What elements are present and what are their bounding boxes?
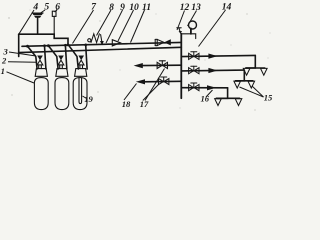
wire right stub cyl1	[45, 46, 46, 69]
valve R3	[189, 83, 199, 91]
wire stub V2 to collector	[48, 46, 58, 69]
wire R1 drop	[246, 55, 256, 68]
branch R2	[181, 66, 254, 88]
nozzle	[243, 68, 250, 75]
wire stem of 6	[53, 16, 55, 34]
leader 18	[124, 84, 137, 101]
wire left box vertical	[18, 34, 20, 56]
svg-text:6: 6	[55, 2, 60, 13]
leader 6	[55, 10, 58, 12]
leader 2	[8, 61, 37, 64]
arrow L1	[134, 63, 143, 68]
valve L2	[159, 77, 169, 85]
leader 13	[188, 11, 197, 27]
leader 7	[73, 10, 94, 44]
leader 8	[97, 10, 112, 36]
branch L2	[136, 77, 182, 85]
leader 14	[199, 10, 226, 47]
svg-text:18: 18	[122, 99, 131, 109]
leader 11	[131, 10, 145, 43]
wire R3 drop	[216, 88, 227, 99]
arrow L2	[136, 79, 145, 84]
svg-text:13: 13	[191, 2, 201, 13]
wire gauge line	[181, 34, 195, 39]
nozzle	[248, 81, 255, 88]
svg-text:10: 10	[129, 2, 139, 13]
wire stub V1 to collector	[28, 46, 38, 69]
nozzle	[261, 68, 268, 75]
leader 4	[19, 10, 34, 34]
svg-text:12: 12	[180, 2, 190, 13]
cylinder valve V2	[47, 44, 67, 69]
svg-text:2: 2	[1, 56, 7, 66]
wire R2 drop	[236, 70, 245, 81]
valve R1	[189, 52, 199, 60]
leader 1	[7, 72, 35, 83]
leader 9	[106, 10, 123, 43]
siphon tube 19	[79, 78, 82, 104]
arrow R2	[208, 68, 217, 73]
branch L1	[134, 61, 182, 69]
pressure gauge 13	[189, 21, 197, 34]
gauge shutoff 12	[177, 28, 182, 34]
nozzle	[215, 99, 222, 106]
cylinder 2	[55, 65, 69, 110]
leader 12	[177, 11, 185, 31]
svg-text:4: 4	[32, 2, 38, 13]
cylinder valve V1 (pos 2)	[26, 44, 46, 69]
nozzle	[235, 99, 242, 106]
leader 3	[9, 52, 36, 56]
wire vent line zigzag	[19, 34, 68, 45]
wire stub V3 to collector	[69, 45, 79, 69]
leader 16	[206, 90, 213, 97]
svg-text:17: 17	[140, 99, 149, 109]
branch R1	[181, 52, 267, 75]
leader 19	[83, 96, 87, 99]
node vent junction	[67, 44, 70, 47]
cylinder 3 with siphon	[73, 65, 87, 110]
funnel 5	[32, 13, 43, 34]
svg-text:14: 14	[222, 2, 232, 13]
relief valve 8	[88, 34, 104, 46]
funnel stem	[37, 18, 39, 34]
valve L1	[157, 61, 167, 69]
valve R2	[189, 66, 199, 74]
wire collector A lower long pipe	[19, 47, 182, 52]
svg-text:16: 16	[201, 94, 210, 104]
branch R3	[181, 83, 242, 106]
leader lines	[7, 10, 264, 101]
leader 15a	[240, 87, 264, 97]
leader 15b	[252, 86, 264, 97]
scan speckles	[8, 5, 270, 111]
leader 10	[118, 10, 134, 41]
leader 17a	[143, 84, 159, 101]
svg-text:8: 8	[109, 2, 114, 13]
check valve 10	[112, 40, 120, 46]
svg-text:9: 9	[120, 2, 125, 13]
svg-text:5: 5	[44, 2, 49, 13]
svg-text:15: 15	[264, 93, 273, 103]
svg-text:1: 1	[1, 66, 5, 76]
arrow R3	[207, 85, 216, 90]
wire right stub cyl2	[65, 45, 66, 69]
cylinder valve V3	[69, 44, 88, 70]
arrow R1	[208, 54, 217, 59]
svg-text:19: 19	[84, 94, 93, 104]
leader 5	[39, 10, 45, 14]
shutoff valve 11	[155, 39, 171, 45]
svg-text:11: 11	[142, 2, 151, 13]
wire right stub cyl3	[86, 45, 87, 69]
labels	[32, 2, 231, 14]
device 6	[52, 9, 57, 34]
cylinder 1	[34, 65, 48, 110]
manifold 14	[180, 34, 182, 98]
nozzle	[234, 81, 241, 88]
wire collector B upper pipe	[22, 42, 181, 46]
leader 17b	[145, 69, 165, 101]
